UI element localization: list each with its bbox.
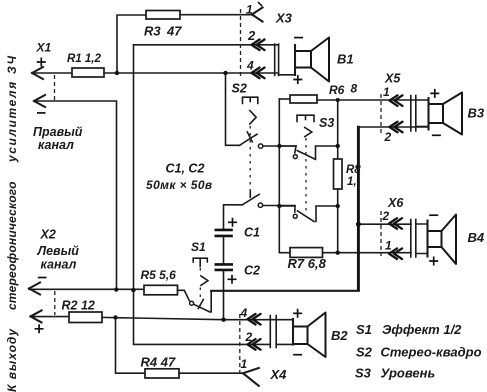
svg-text:Эффект 1/2: Эффект 1/2 [382, 322, 462, 337]
svg-text:2: 2 [247, 28, 256, 43]
svg-text:R1 1,2: R1 1,2 [67, 53, 101, 65]
svg-text:B1: B1 [337, 52, 354, 67]
svg-text:R3: R3 [144, 24, 161, 39]
svg-text:50мк × 50в: 50мк × 50в [146, 178, 213, 192]
svg-text:47: 47 [166, 24, 182, 39]
svg-text:S2: S2 [232, 82, 247, 96]
svg-text:Стерео-квадро: Стерео-квадро [381, 345, 482, 360]
svg-text:1: 1 [241, 357, 248, 371]
svg-text:C1: C1 [244, 226, 260, 240]
svg-text:1: 1 [246, 3, 253, 17]
svg-text:R6: R6 [329, 83, 345, 97]
svg-text:R7 6,8: R7 6,8 [288, 256, 327, 271]
svg-text:B3: B3 [468, 106, 485, 121]
svg-text:1,: 1, [347, 176, 357, 188]
svg-text:канал: канал [41, 258, 77, 272]
svg-text:1: 1 [383, 85, 390, 99]
svg-text:ЗЧ: ЗЧ [5, 54, 19, 74]
svg-text:8: 8 [351, 82, 358, 96]
svg-text:S1: S1 [356, 322, 372, 337]
svg-text:X6: X6 [387, 196, 404, 210]
svg-text:1: 1 [385, 239, 392, 253]
svg-text:X2: X2 [40, 228, 56, 242]
svg-text:X4: X4 [270, 367, 288, 382]
svg-text:R5 5,6: R5 5,6 [141, 268, 177, 282]
svg-text:усилителя: усилителя [5, 80, 19, 163]
svg-text:R4 47: R4 47 [141, 355, 176, 370]
svg-text:К выходу: К выходу [5, 328, 19, 392]
svg-text:S2: S2 [356, 345, 373, 360]
svg-text:X3: X3 [275, 11, 293, 26]
svg-text:4: 4 [246, 59, 254, 73]
svg-text:X5: X5 [384, 72, 401, 86]
svg-text:C2: C2 [244, 264, 260, 278]
svg-text:R8: R8 [346, 164, 361, 176]
svg-text:канал: канал [38, 138, 74, 152]
svg-text:X1: X1 [36, 41, 52, 55]
svg-text:R2 12: R2 12 [62, 299, 95, 313]
svg-text:B2: B2 [331, 328, 348, 343]
svg-text:Левый: Левый [37, 244, 80, 258]
svg-text:стереофонического: стереофонического [5, 181, 19, 310]
svg-text:Правый: Правый [33, 125, 83, 139]
svg-text:C1, C2: C1, C2 [166, 162, 205, 176]
svg-text:B4: B4 [468, 230, 485, 245]
svg-text:2: 2 [384, 130, 392, 144]
svg-text:S3: S3 [355, 366, 372, 381]
svg-text:4: 4 [240, 306, 248, 320]
svg-text:2: 2 [245, 330, 253, 344]
svg-text:Уровень: Уровень [381, 366, 436, 381]
svg-text:2: 2 [382, 209, 390, 223]
svg-text:S1: S1 [191, 240, 206, 254]
svg-text:S3: S3 [319, 116, 334, 130]
